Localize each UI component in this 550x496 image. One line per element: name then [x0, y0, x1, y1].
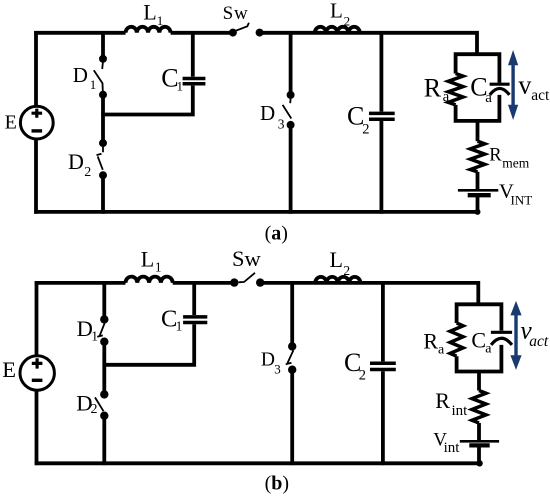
capacitor Ca (b) — [491, 332, 512, 345]
label Ca (a) — [470, 73, 492, 106]
label L1 (a) — [143, 0, 163, 28]
svg-text:a: a — [443, 89, 450, 105]
label L2 (b) — [330, 247, 351, 278]
label v_act (b) — [520, 316, 549, 350]
svg-text:3: 3 — [274, 361, 281, 376]
svg-text:2: 2 — [84, 165, 91, 180]
switch D3 (b) — [286, 342, 297, 374]
wire (b) Rint to battery — [477, 423, 481, 440]
svg-text:2: 2 — [362, 121, 369, 137]
switch D3 (a) — [283, 91, 295, 129]
svg-text:a: a — [485, 90, 492, 106]
wire (a) left branch upper — [34, 31, 38, 106]
wire (a) D3 branch bottom — [289, 125, 293, 214]
svg-text:1: 1 — [90, 77, 97, 92]
wire (b) left branch lower — [35, 390, 39, 465]
label L2 (a) — [330, 0, 350, 28]
wire (b) bottom rail — [35, 461, 480, 465]
capacitor C1 (b) — [183, 283, 207, 323]
svg-text:3: 3 — [278, 117, 285, 132]
label Vint (b) — [433, 429, 460, 456]
svg-text:act: act — [529, 333, 549, 350]
wire (b) D-branch middle — [102, 342, 106, 395]
box Ra/Ca (a) upper edges — [456, 54, 500, 82]
svg-text:v: v — [518, 70, 531, 99]
label D1 (a) — [73, 63, 96, 92]
label Ca (b) — [471, 328, 492, 357]
svg-text:1: 1 — [157, 13, 164, 28]
wire (a) D3 branch top — [289, 31, 293, 95]
wire (b) D3 branch bottom — [290, 370, 294, 465]
inductor L2 (b) — [315, 277, 360, 283]
wire (a) top rail left segment — [34, 31, 125, 35]
source E (b) — [20, 356, 54, 390]
svg-text:R: R — [489, 145, 502, 165]
svg-text:L: L — [143, 0, 156, 24]
svg-text:E: E — [2, 357, 16, 382]
switch D2 (a) — [97, 139, 108, 179]
wire (a) mid tee from D-branch to C1 bottom — [101, 86, 193, 115]
svg-text:C: C — [471, 328, 486, 353]
svg-text:D: D — [260, 101, 275, 125]
capacitor C2 (a) — [369, 33, 395, 214]
wire (b) left branch upper — [35, 281, 39, 356]
svg-text:act: act — [531, 87, 550, 104]
label D3 (a) — [260, 101, 285, 132]
svg-text:D: D — [261, 350, 275, 371]
svg-text:1: 1 — [177, 78, 184, 93]
switch D1 (a) — [94, 55, 107, 99]
svg-text:D: D — [68, 149, 84, 174]
svg-text:a: a — [438, 342, 445, 357]
switch D1 (b) — [97, 315, 108, 346]
svg-text:2: 2 — [359, 368, 366, 384]
box Ra/Ca (b) lower edges — [457, 345, 502, 372]
junction dot (b) bottom right — [476, 460, 482, 466]
svg-text:L: L — [330, 0, 343, 22]
label Ra (a) — [424, 73, 450, 105]
label C1 (b) — [161, 306, 182, 334]
svg-text:Sw: Sw — [223, 3, 249, 24]
switch D2 (b) — [95, 390, 109, 420]
junction dot (a) bottom right — [475, 209, 481, 215]
capacitor Ca (a) — [490, 84, 510, 95]
label Ra (b) — [423, 328, 445, 357]
capacitor C1 (a) — [183, 33, 206, 84]
switch Sw (b) — [230, 273, 264, 287]
svg-text:mem: mem — [502, 155, 529, 170]
svg-text:INT: INT — [511, 192, 533, 207]
wire (a) top rail L1 to Sw — [171, 31, 233, 35]
svg-text:a: a — [485, 342, 492, 357]
wire (a) box bottom to Rmem — [476, 121, 480, 141]
svg-text:2: 2 — [344, 13, 351, 28]
svg-text:R: R — [435, 388, 450, 413]
resistor Rmem (a) — [470, 141, 484, 172]
wire (a) Rmem to battery — [476, 172, 480, 189]
resistor Rint (b) — [472, 391, 486, 424]
inductor L1 (b) — [126, 277, 173, 283]
wire (b) top rail left segment — [35, 281, 126, 285]
label L1 (b) — [141, 247, 162, 275]
wire (a) top rail Sw to right corner, down to box — [260, 33, 477, 54]
wire (b) box bottom to Rint — [477, 372, 481, 391]
svg-text:R: R — [424, 73, 442, 102]
inductor L1 (a) — [126, 27, 171, 33]
svg-text:L: L — [330, 247, 343, 272]
svg-text:Sw: Sw — [232, 246, 262, 271]
wire (a) left branch lower — [34, 139, 38, 214]
svg-text:D: D — [73, 63, 88, 87]
svg-text:int: int — [452, 403, 469, 419]
label Rmem (a) — [489, 145, 529, 170]
label D1 (b) — [77, 316, 98, 344]
label v_act (a) — [518, 70, 550, 104]
wire (b) D-branch top — [102, 281, 106, 319]
box Ra/Ca (b) upper edges — [457, 304, 502, 330]
capacitor C2 (b) — [370, 283, 396, 465]
svg-text:1: 1 — [155, 260, 162, 275]
label VINT (a) — [499, 180, 532, 207]
switch Sw (a) — [229, 23, 264, 37]
svg-text:int: int — [444, 440, 461, 456]
box Ra/Ca (a) lower edges — [456, 95, 500, 121]
svg-text:2: 2 — [91, 402, 98, 417]
battery VINT (a) — [458, 190, 498, 195]
wire (b) battery to bottom rail — [477, 446, 481, 464]
wire (b) top rail L1 to Sw — [173, 281, 235, 285]
inductor L2 (a) — [315, 27, 360, 33]
svg-text:2: 2 — [343, 263, 350, 278]
wire (a) bottom rail — [34, 210, 477, 214]
label D3 (b) — [261, 350, 281, 377]
label D2 (b) — [76, 391, 97, 417]
arrow v_act (a) — [508, 50, 518, 120]
svg-text:1: 1 — [176, 319, 183, 334]
svg-text:(a): (a) — [265, 223, 288, 245]
resistor Ra (b) — [450, 323, 463, 356]
wire (b) mid tee from D-branch to C1 bottom — [103, 324, 195, 365]
source E (a) — [20, 106, 53, 139]
label Rint (b) — [435, 388, 468, 419]
battery Vint (b) — [460, 441, 499, 445]
label C1 (a) — [161, 63, 183, 93]
label C2 (a) — [347, 102, 370, 138]
label D2 (a) — [68, 149, 91, 180]
wire (b) D3 branch top — [290, 281, 294, 346]
svg-text:L: L — [141, 247, 154, 272]
wire (a) D-branch middle — [101, 95, 105, 143]
svg-text:1: 1 — [91, 328, 98, 343]
wire (a) D-branch top — [101, 31, 105, 59]
wire (a) battery to bottom rail — [476, 195, 480, 212]
label C2 (b) — [344, 348, 366, 384]
svg-text:E: E — [5, 112, 17, 134]
arrow v_act (b) — [510, 301, 521, 370]
svg-text:(b): (b) — [265, 473, 289, 495]
wire (b) D-branch bottom — [102, 416, 106, 465]
svg-text:R: R — [423, 328, 438, 353]
wire (a) D-branch bottom — [101, 175, 105, 214]
wire (b) top rail Sw to right corner, down to box — [260, 283, 478, 304]
resistor Ra (a) — [448, 74, 463, 105]
